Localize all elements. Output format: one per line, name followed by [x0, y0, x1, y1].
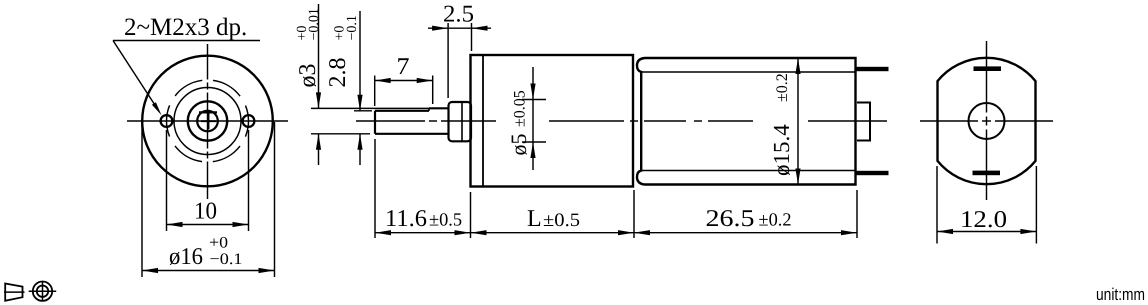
dimension ø16 extension lines: [142, 122, 275, 277]
dimension 10 extension lines: [167, 130, 249, 231]
dimension 12.0 line with arrows: [937, 229, 1036, 234]
text 12.0: [960, 207, 1007, 233]
text ø15.4 ±0.2 (rotated): [769, 73, 794, 176]
note unit:mm: [1096, 285, 1145, 304]
text 11.6 ±0.5: [385, 206, 462, 232]
svg-text:10: 10: [194, 199, 217, 225]
svg-text:−0.01: −0.01: [307, 8, 322, 40]
end view vertical centerline: [986, 41, 988, 200]
motor can flat lines: [641, 72, 856, 171]
svg-text:ø16: ø16: [169, 244, 203, 270]
bottom dimension extension lines: [375, 139, 857, 238]
bottom dimension line 11.6 / L / 26.5: [375, 230, 857, 235]
svg-text:+0: +0: [209, 235, 228, 252]
dimension 2.5: [428, 23, 491, 98]
brush cap on end face: [857, 103, 870, 141]
front view horizontal centerline: [127, 120, 288, 122]
text L ±0.5: [527, 206, 580, 232]
dimension ø15.4 ±0.2: [795, 58, 800, 185]
svg-text:ø5: ø5: [506, 134, 531, 156]
label 2~M2x3 dp.: [124, 14, 247, 41]
dimension 2.8 +0/-0.1: [354, 11, 372, 165]
dimension 10 line with arrows: [167, 222, 249, 227]
svg-text:2~M2x3 dp.: 2~M2x3 dp.: [124, 14, 247, 41]
leader line for M2 label: [113, 41, 260, 116]
svg-text:±0.5: ±0.5: [429, 211, 462, 231]
svg-text:12.0: 12.0: [960, 207, 1007, 233]
front view outer circle (gearbox ø16): [142, 56, 273, 187]
gearbox body: [471, 55, 634, 187]
text ø3 +0/-0.01 (rotated): [295, 8, 322, 87]
end view horizontal centerline: [920, 120, 1053, 122]
first-angle projection symbol: circle view: [29, 281, 57, 302]
end view body outline: [938, 58, 1036, 184]
first-angle projection symbol: frustum: [4, 284, 25, 301]
text ø5 ±0.05 (rotated): [506, 90, 531, 155]
end view terminal top: [974, 66, 1002, 71]
dimension text 10: [194, 199, 217, 225]
svg-text:2.8: 2.8: [325, 58, 351, 88]
svg-text:−0.1: −0.1: [345, 15, 360, 40]
front view vertical centerline: [207, 44, 209, 199]
svg-text:±0.2: ±0.2: [774, 73, 791, 102]
dimension 12.0 extension lines: [937, 166, 1036, 244]
motor can body: [637, 58, 856, 185]
svg-text:ø3: ø3: [295, 64, 321, 88]
shaft collar (bearing bushing): [449, 102, 472, 141]
front view center cross: [201, 114, 216, 130]
dimension 7: [375, 76, 433, 107]
mounting hole right (M2): [243, 115, 255, 127]
front view shaft circle: [197, 111, 218, 132]
mounting hole left (M2): [161, 115, 173, 127]
svg-text:±0.5: ±0.5: [543, 210, 580, 231]
text 7: [397, 54, 410, 80]
svg-text:−0.1: −0.1: [210, 251, 243, 268]
front view boss circle: [188, 101, 227, 140]
motor terminal top: [856, 67, 889, 71]
motor shaft outline: [375, 108, 449, 134]
side view centerline: [356, 120, 887, 122]
svg-text:2.5: 2.5: [443, 2, 474, 28]
svg-text:26.5: 26.5: [706, 206, 755, 232]
dimension text ø16 +0/-0.1: [169, 235, 243, 271]
front view shaft flat chord: [199, 111, 217, 113]
svg-text:L: L: [527, 206, 542, 232]
text 2.8 +0/-0.1 (rotated): [325, 15, 360, 87]
text 26.5 ±0.2: [706, 206, 792, 232]
end view bearing circle: [969, 103, 1005, 139]
svg-text:7: 7: [397, 54, 410, 80]
svg-text:11.6: 11.6: [385, 206, 427, 232]
dimension ø16 line with arrows: [142, 268, 275, 273]
svg-text:±0.2: ±0.2: [759, 211, 792, 231]
motor terminal bottom: [856, 171, 889, 175]
dimension ø5 ±0.05: [522, 67, 546, 170]
front view inner step circle: [174, 88, 241, 155]
svg-text:ø15.4: ø15.4: [769, 124, 794, 176]
dimension ø3 +0/-0.01: [311, 4, 430, 165]
front view bolt circle (dashed, ø10 b.c.): [167, 80, 249, 162]
svg-text:±0.05: ±0.05: [512, 90, 529, 127]
svg-text:unit:mm: unit:mm: [1096, 285, 1145, 304]
end view terminal bottom: [973, 171, 1001, 176]
text 2.5: [443, 2, 474, 28]
